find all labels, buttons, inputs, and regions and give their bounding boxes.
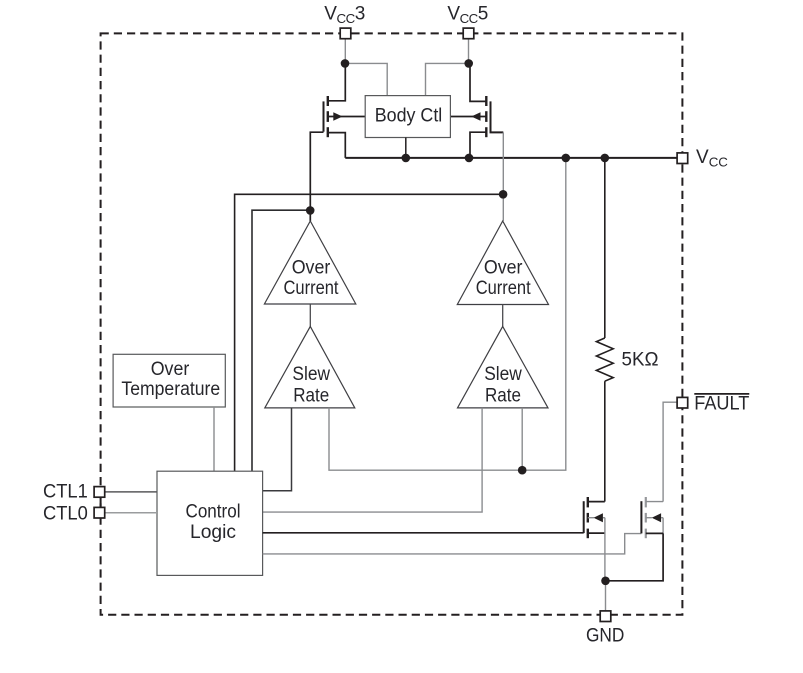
transistor Q4 (right N-MOSFET)	[641, 497, 663, 538]
op-amp Slew Rate right	[458, 326, 549, 408]
wire Body Ctl to VCC bus	[405, 138, 407, 158]
wire Slew Rate left output to Control Logic	[263, 408, 292, 491]
terminal VCC3	[340, 28, 351, 39]
Control Logic block	[157, 471, 263, 575]
terminal VCC	[677, 153, 688, 164]
svg-text:Rate: Rate	[485, 385, 521, 406]
node VCC3 junction	[341, 59, 350, 68]
wire VCC3 terminal to node	[344, 39, 346, 64]
terminal FAULT	[677, 397, 688, 408]
svg-text:CTL0: CTL0	[43, 503, 88, 524]
label FAULT overline	[694, 393, 749, 395]
svg-text:Rate: Rate	[293, 385, 329, 406]
Q2 body arrow	[471, 112, 480, 121]
wire Slew Rate right output to Control Logic	[263, 408, 483, 512]
terminal CTL1	[94, 487, 105, 498]
svg-text:Over: Over	[484, 258, 523, 279]
svg-text:Control: Control	[186, 501, 241, 522]
wire Control Logic to Q4 gate	[263, 534, 642, 554]
wire Control Logic to Over Current left (line B)	[252, 210, 310, 471]
wire Q4 source to GND node	[606, 533, 664, 580]
svg-text:GND: GND	[586, 626, 624, 647]
wire Slew Rate left to VCC sense run	[329, 158, 566, 470]
node Over Current left input	[306, 206, 315, 215]
Q3 body arrow	[594, 513, 603, 522]
svg-text:Slew: Slew	[484, 364, 522, 385]
wire CTL0 to Control Logic	[105, 512, 157, 514]
svg-text:5KΩ: 5KΩ	[622, 350, 659, 371]
svg-text:FAULT: FAULT	[694, 394, 749, 415]
wire Slew Rate right drop to junction	[521, 408, 523, 470]
svg-text:Over: Over	[292, 258, 331, 279]
op-amp Over Current right	[457, 221, 548, 305]
svg-text:Current: Current	[284, 278, 340, 299]
Q1 body arrow	[333, 112, 342, 121]
wire Over Temperature to Control Logic	[213, 407, 215, 471]
wire CTL1 to Control Logic	[105, 491, 157, 493]
wire VCC5 terminal to node	[468, 39, 470, 64]
wire node to Body Ctl top-left	[345, 63, 387, 95]
node resistor on bus	[601, 154, 610, 163]
transistor Q2 (right P-MOSFET)	[450, 63, 503, 157]
wire Over Current right to Slew Rate right	[502, 305, 504, 327]
Over Temperature block	[113, 354, 225, 407]
node Over Current right input	[499, 190, 508, 199]
svg-text:Current: Current	[476, 278, 532, 299]
terminal VCC5	[463, 28, 474, 39]
wire node to Body Ctl top-right	[426, 63, 469, 95]
wire Control Logic to Q3 gate	[263, 532, 584, 534]
svg-text:Over: Over	[151, 359, 190, 380]
svg-text:Slew: Slew	[292, 364, 330, 385]
node GND junction	[601, 577, 610, 586]
terminal GND	[600, 611, 611, 622]
Q4 body arrow	[652, 513, 661, 522]
node sense on bus	[562, 154, 571, 163]
svg-text:Logic: Logic	[190, 522, 236, 543]
wire FAULT terminal to Q4 drain	[663, 402, 677, 501]
node slew rate junction	[518, 466, 527, 475]
node Body Ctl on bus	[402, 154, 411, 163]
transistor Q1 (left P-MOSFET)	[310, 63, 365, 221]
IC boundary (dashed)	[101, 33, 683, 614]
svg-text:CTL1: CTL1	[43, 482, 88, 503]
op-amp Over Current left	[264, 221, 355, 304]
wire Control Logic to Over Current right (line A)	[235, 194, 504, 471]
svg-text:Body Ctl: Body Ctl	[375, 105, 443, 126]
wire Q2 gate to Over Current right	[502, 132, 504, 221]
node Q2 drain on bus	[465, 154, 474, 163]
transistor Q3 (left N-MOSFET)	[584, 497, 605, 581]
resistor R1 wire and zigzag 5K	[596, 158, 613, 502]
node VCC5 junction	[464, 59, 473, 68]
VCC bus wire	[345, 157, 677, 159]
op-amp Slew Rate left	[265, 326, 355, 408]
Body Ctl block	[365, 96, 450, 138]
terminal CTL0	[94, 507, 105, 518]
svg-text:Temperature: Temperature	[121, 379, 220, 400]
wire GND node to GND terminal	[605, 581, 607, 611]
wire Over Current left to Slew Rate left	[309, 304, 311, 326]
